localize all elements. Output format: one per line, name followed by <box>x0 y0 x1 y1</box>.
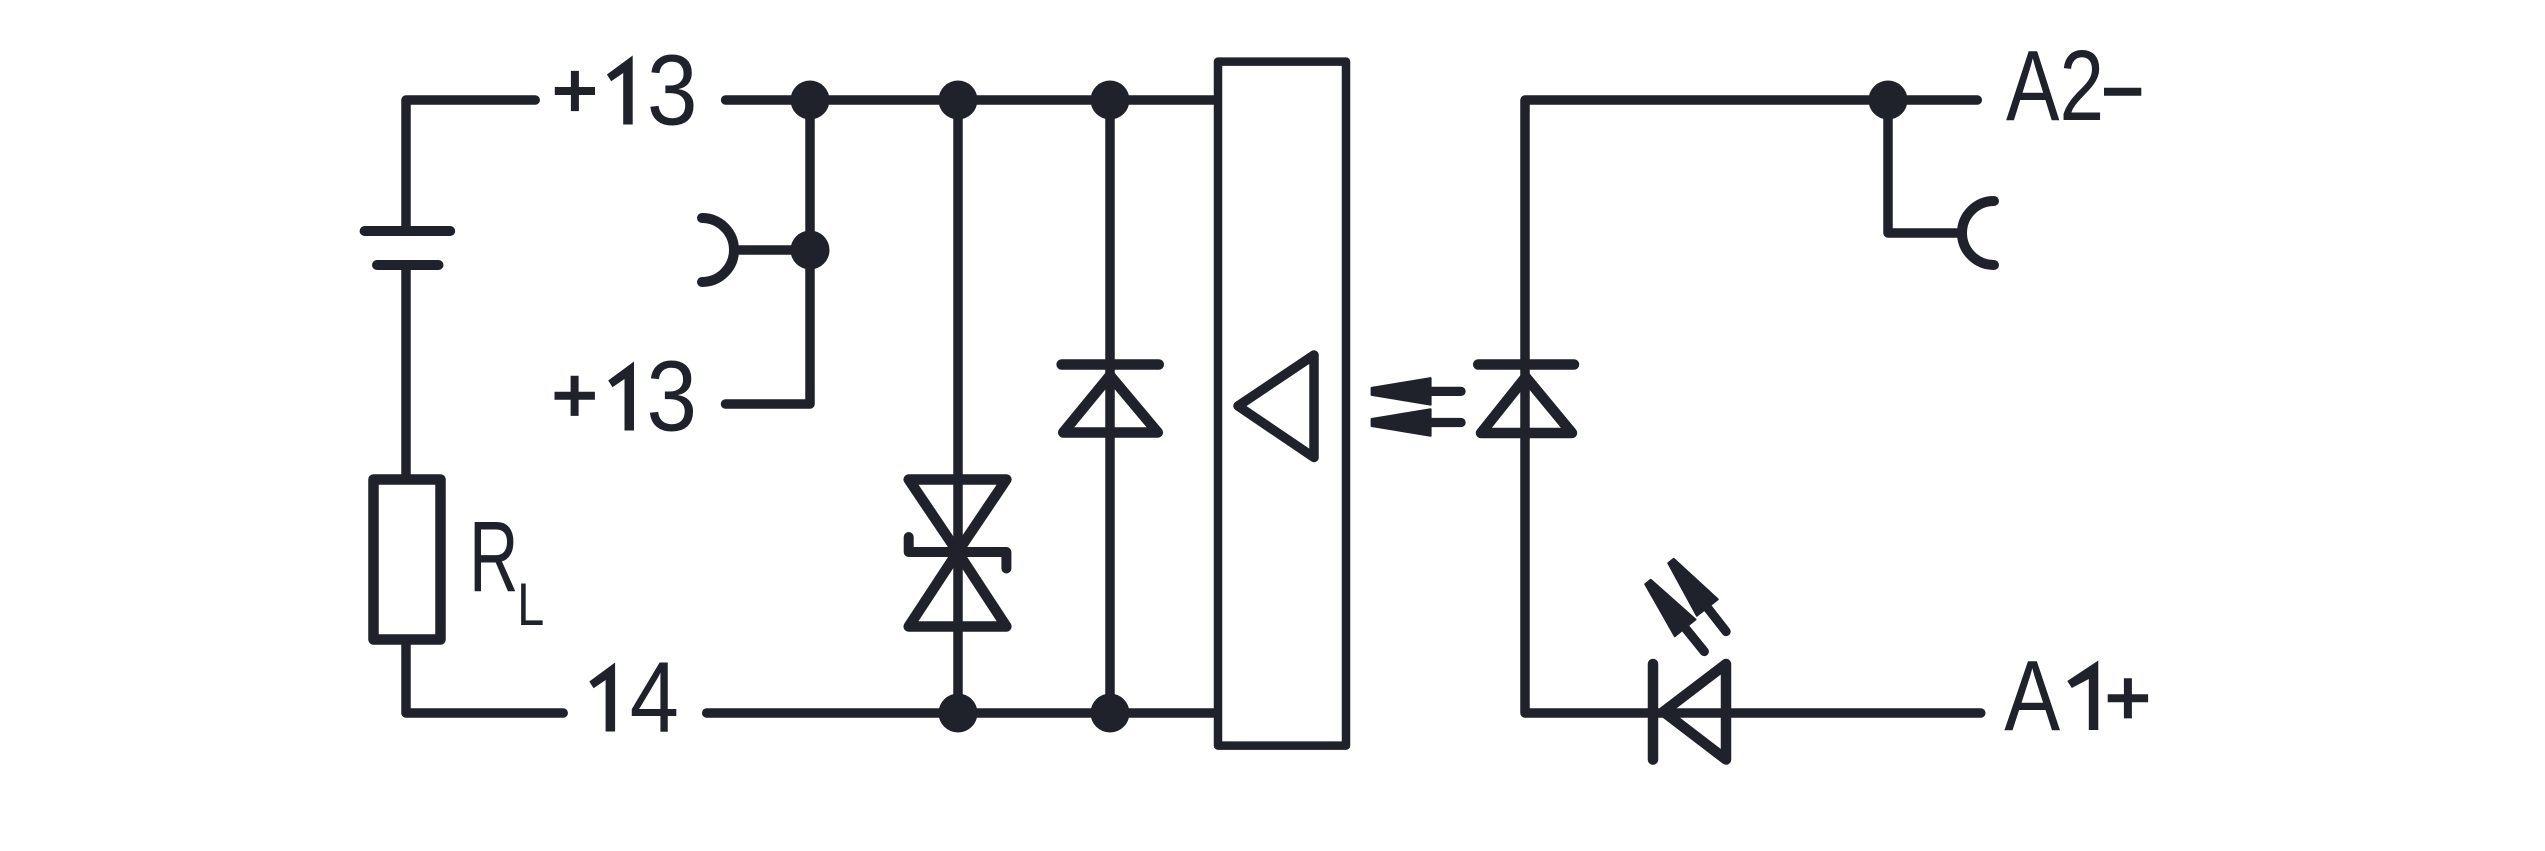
svg-text:L: L <box>517 570 544 638</box>
svg-text:R: R <box>469 501 518 613</box>
svg-text:4: 4 <box>630 641 679 752</box>
svg-text:3: 3 <box>647 35 698 147</box>
svg-text:A2: A2 <box>2006 31 2104 142</box>
svg-text:3: 3 <box>646 341 697 453</box>
svg-text:A: A <box>2004 639 2060 752</box>
